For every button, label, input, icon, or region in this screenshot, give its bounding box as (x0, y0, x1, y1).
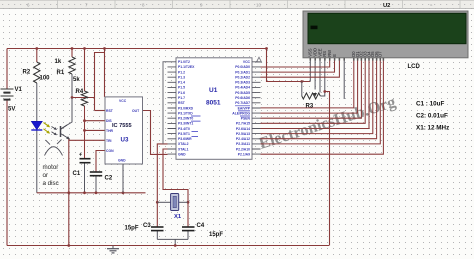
svg-text:R3: R3 (306, 104, 314, 110)
svg-text:PSEN: PSEN (241, 117, 251, 121)
svg-text:GND: GND (118, 159, 126, 163)
LED emission arrows (44, 123, 50, 134)
wire: C4 top lead (187, 202, 189, 227)
svg-text:U1: U1 (209, 87, 218, 94)
wire: phototransistor emitter down to rail (68, 139, 70, 246)
svg-text:P2.7/A15: P2.7/A15 (236, 122, 250, 126)
capacitor C4 (182, 227, 195, 231)
LED D1 (IR emitter) (31, 121, 42, 130)
svg-text:a disc: a disc (43, 180, 59, 187)
wire: RST pin horizontal (95, 110, 106, 112)
node: crystal right junction (187, 201, 190, 204)
microcontroller U1 8051 box (168, 58, 261, 160)
svg-text:P1.2: P1.2 (178, 70, 185, 74)
svg-text:P1.1/T2EX: P1.1/T2EX (178, 65, 195, 69)
wire: LCD pin3 down to R3 (319, 58, 321, 93)
svg-text:R4: R4 (76, 89, 84, 95)
wire: LCD data bus line 3 to 8051 (261, 58, 366, 124)
wire: 8051 to LCD control E (261, 58, 330, 67)
svg-text:5V: 5V (8, 107, 15, 113)
wire: LCD data bus line 6 to 8051 (261, 58, 377, 139)
svg-text:P1.6: P1.6 (178, 91, 185, 95)
capacitor C3 (151, 227, 164, 231)
svg-text:P0.4/AD4: P0.4/AD4 (235, 86, 250, 90)
svg-text:P1.0/T2: P1.0/T2 (178, 60, 190, 64)
wire: bottom ground rail (7, 245, 329, 247)
svg-text:CON: CON (106, 149, 114, 153)
label: motor or a disc (43, 164, 59, 187)
wire: 7555 vcc drop (104, 49, 106, 97)
svg-text:1k: 1k (55, 59, 62, 65)
wire: top VCC rail (7, 48, 267, 50)
node: rail junction R4 (83, 47, 86, 50)
svg-text:GND: GND (178, 152, 186, 156)
svg-text:X1: X1 (174, 214, 182, 220)
battery V1 (1, 89, 14, 100)
op-amp/timer U3 IC7555 box (105, 97, 143, 164)
wire: crystal left pin (157, 201, 170, 203)
svg-text:P3.1/TXD: P3.1/TXD (178, 111, 193, 115)
wire: sensor ground bus (37, 192, 146, 194)
svg-text:IC 7555: IC 7555 (112, 123, 132, 129)
node: R1/phototransistor junction (71, 96, 74, 99)
svg-text:15pF: 15pF (209, 232, 223, 238)
svg-text:C4: C4 (197, 223, 205, 229)
svg-text:U2: U2 (383, 3, 390, 9)
wire: R1 top lead (71, 49, 73, 58)
node: rail junction R2 (35, 47, 38, 50)
node: bus junction 7555 GND (122, 191, 125, 194)
svg-text:P2.1/A9: P2.1/A9 (238, 152, 250, 156)
svg-text:D7: D7 (378, 51, 383, 57)
wire: R3 right lead up to LCD pin4 (320, 58, 325, 96)
wire: C3 bottom lead (156, 230, 158, 239)
node: bus junction C1 (83, 191, 86, 194)
svg-text:P1.7: P1.7 (178, 96, 185, 100)
svg-text:P0.6/AD6: P0.6/AD6 (235, 96, 250, 100)
wire: 8051 P1.0/T2 long vertical (163, 62, 168, 144)
svg-text:VCC: VCC (243, 60, 251, 64)
svg-text:P3.4/T0: P3.4/T0 (178, 127, 190, 131)
wire: LCD data bus line 2 to 8051 (261, 58, 362, 118)
svg-text:P1.3: P1.3 (178, 76, 185, 80)
svg-text:P2.4/A12: P2.4/A12 (236, 137, 250, 141)
wire: LCD data bus line 8 to 8051 (261, 58, 384, 154)
active-low overlines on pin labels (191, 106, 250, 137)
phototransistor Q1 (52, 125, 70, 139)
node: rail junction 7555 vcc drop (103, 47, 106, 50)
resistor R2 (34, 62, 40, 83)
svg-text:P3.6/WR: P3.6/WR (178, 137, 192, 141)
svg-text:C2: C2 (105, 176, 113, 182)
wire: LCD data bus line 5 to 8051 (261, 58, 373, 134)
capacitor C2 (90, 172, 102, 176)
wire: battery bottom lead to ground rail (6, 100, 8, 246)
svg-text:P3.0/RXD: P3.0/RXD (178, 106, 194, 110)
wire: R4 bottom to C1 (84, 106, 86, 158)
svg-text:P1.5: P1.5 (178, 86, 185, 90)
wire: battery top lead (6, 49, 8, 90)
node: R3 right junction (323, 90, 326, 93)
svg-text:EA/VPP: EA/VPP (238, 106, 251, 110)
svg-text:15pF: 15pF (125, 226, 139, 232)
node: rail junction R1 (71, 47, 74, 50)
svg-text:VCC: VCC (119, 99, 127, 103)
power symbol near 8051 VCC pin (257, 57, 262, 62)
wire: sub-bus stub to rail (174, 239, 176, 245)
svg-text:P1.4: P1.4 (178, 81, 185, 85)
capacitor C1 (polarized) (79, 153, 91, 163)
wire: C2 bottom to ground bus (95, 176, 97, 193)
node: rail corner junction (265, 47, 268, 50)
svg-text:XTAL1: XTAL1 (178, 147, 189, 151)
wire: R2 bottom to LED anode (36, 83, 38, 121)
node: R3 left junction (300, 80, 303, 83)
svg-text:P3.3/INT1: P3.3/INT1 (178, 122, 193, 126)
ground (107, 246, 119, 253)
wire: LCD pin8 stub down (343, 58, 345, 99)
wire: LCD pin1 down (309, 58, 311, 82)
wire: vcc down and across to LCD pin1 (267, 49, 311, 82)
svg-text:or: or (43, 172, 49, 179)
label: component values (416, 101, 449, 132)
svg-text:ALE/PROG: ALE/PROG (232, 111, 250, 115)
top ruler bar (0, 0, 474, 9)
wire: R3 left lead (301, 82, 303, 97)
svg-text:5k: 5k (73, 77, 80, 83)
svg-text:TRI: TRI (106, 139, 112, 143)
wire: LCD data bus line 1 to 8051 (261, 58, 358, 113)
svg-text:THR: THR (106, 129, 114, 133)
wire: LCD data bus line 7 to 8051 (261, 58, 381, 144)
svg-text:R2: R2 (23, 70, 31, 76)
node: rail junction crystal gnd (174, 244, 177, 247)
wire: LED cathode down to sensor ground bus (36, 131, 38, 193)
wire: 7555 OUT to 8051 (143, 111, 168, 155)
svg-text:X1: 12 MHz: X1: 12 MHz (416, 125, 449, 132)
wire: THR pin horizontal (85, 129, 106, 131)
svg-text:C1 : 10uF: C1 : 10uF (416, 101, 444, 108)
wire: R4 top lead (84, 49, 86, 92)
wire: trigger node horizontal to bracket (72, 97, 95, 99)
wire: 8051 to LCD control RS (261, 58, 340, 77)
LCD display module U2 (303, 11, 468, 61)
wire: crystal right pin (179, 201, 188, 203)
node: bus junction emitter (67, 191, 70, 194)
svg-text:10: 10 (256, 2, 262, 7)
svg-text:RST: RST (106, 109, 114, 113)
svg-text:P2.3/A11: P2.3/A11 (236, 142, 250, 146)
wire: XTAL2 to crystal left / C3 (157, 144, 167, 227)
node: R4/THR junction (83, 129, 86, 132)
svg-text:C3: C3 (143, 223, 151, 229)
wire: 7555 GND lead (122, 164, 124, 193)
node: bus junction C2 (95, 191, 98, 194)
node: R4/DIS junction (83, 119, 86, 122)
wire: DIS pin horizontal (85, 120, 106, 122)
svg-text:motor: motor (43, 164, 59, 171)
crystal X1 (171, 194, 179, 211)
svg-text:8051: 8051 (206, 100, 221, 107)
wire: LCD data bus line 0 to 8051 (261, 58, 354, 108)
svg-text:P0.0/AD0: P0.0/AD0 (235, 65, 250, 69)
wire: C4 bottom lead (187, 230, 189, 239)
svg-text:V1: V1 (15, 87, 23, 93)
node: crystal left junction (156, 201, 159, 204)
wire: XTAL1 to crystal right / C4 (163, 149, 188, 202)
svg-text:C1: C1 (73, 171, 81, 177)
svg-text:OUT: OUT (132, 109, 140, 113)
svg-text:P2.2/A10: P2.2/A10 (236, 147, 250, 151)
wire: TRI pin from emitter node (69, 139, 105, 141)
node: rail junction emitter drop (67, 244, 70, 247)
svg-text:R1: R1 (57, 70, 65, 76)
resistor R1 (69, 57, 75, 74)
svg-text:U3: U3 (121, 137, 129, 144)
wire: 8051 to LCD control RW (261, 58, 335, 72)
wire: CON pin to C2 (96, 151, 105, 172)
svg-text:XTAL2: XTAL2 (178, 142, 189, 146)
wire: R2 top lead (36, 49, 38, 63)
svg-text:P0.3/AD3: P0.3/AD3 (235, 81, 250, 85)
svg-text:LCD: LCD (408, 64, 421, 70)
wire: crystal caps ground sub-bus (157, 238, 188, 240)
wire: LCD pin2 down to R3 wiper (314, 58, 316, 90)
potentiometer R3 (302, 93, 321, 99)
svg-text:P2.5/A13: P2.5/A13 (236, 132, 250, 136)
svg-text:P0.1/AD1: P0.1/AD1 (235, 70, 250, 74)
wire: C1 bottom to ground bus (84, 163, 86, 193)
motor disc icon (45, 140, 63, 156)
wire: LCD data bus line 4 to 8051 (261, 58, 370, 129)
wire: R1 bottom to collector node (71, 74, 73, 98)
svg-text:P0.7/AD7: P0.7/AD7 (235, 101, 250, 105)
svg-text:P3.5/T1: P3.5/T1 (178, 132, 190, 136)
svg-text:P0.2/AD2: P0.2/AD2 (235, 76, 250, 80)
wire: collector node down to phototransistor (61, 98, 73, 130)
svg-text:E: E (332, 54, 337, 57)
svg-text:P2.6/A14: P2.6/A14 (236, 127, 250, 131)
svg-text:P3.2/INT0: P3.2/INT0 (178, 117, 193, 121)
svg-text:RST: RST (178, 101, 186, 105)
svg-text:100: 100 (40, 76, 51, 82)
resistor R4 (81, 91, 87, 106)
svg-text:C2: 0.01uF: C2: 0.01uF (416, 113, 448, 120)
wire: R3 right to ground drop (325, 92, 330, 246)
svg-text:P0.5/AD5: P0.5/AD5 (235, 91, 250, 95)
wire: trigger bracket to RST pin (95, 53, 105, 111)
